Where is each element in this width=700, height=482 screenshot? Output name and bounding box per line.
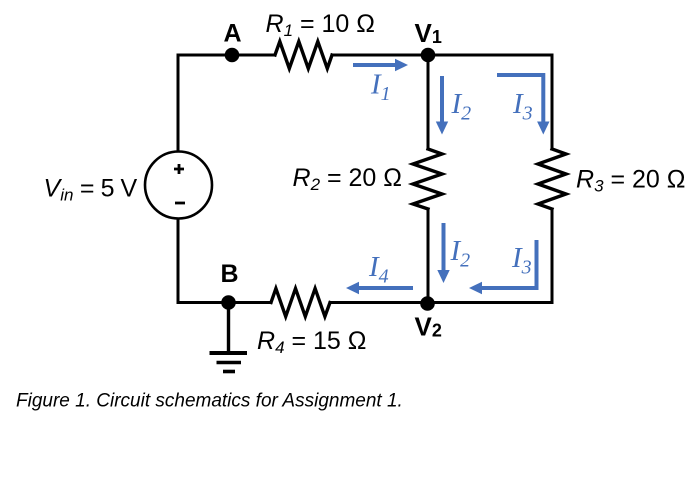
- current arrow I2 bottom: [437, 223, 449, 283]
- current arrow I2 top: [436, 76, 448, 135]
- wire left branch lower: [177, 219, 180, 303]
- svg-text:V1: V1: [415, 18, 442, 48]
- wire bottom right segment: [330, 301, 552, 304]
- svg-text:I2: I2: [450, 235, 471, 272]
- ground: [210, 303, 248, 372]
- svg-text:Figure 1. Circuit schematics f: Figure 1. Circuit schematics for Assignm…: [16, 391, 403, 412]
- svg-text:R1 = 10 Ω: R1 = 10 Ω: [266, 10, 375, 40]
- current arrow I3 top: [497, 75, 550, 135]
- wire top left segment: [178, 54, 275, 57]
- svg-text:Vin = 5 V: Vin = 5 V: [44, 175, 138, 205]
- node A: [225, 48, 240, 63]
- voltage source Vin: [145, 152, 212, 219]
- svg-text:I3: I3: [512, 88, 533, 125]
- wire top right segment: [332, 54, 552, 57]
- wire middle branch lower: [427, 209, 430, 303]
- wire bottom left segment: [178, 301, 271, 304]
- node V1: [421, 48, 436, 63]
- resistor R1: [275, 42, 332, 69]
- wire left branch upper: [177, 55, 180, 152]
- resistor R4: [271, 289, 330, 317]
- current arrow I4: [346, 282, 413, 294]
- resistor R3: [538, 149, 566, 209]
- svg-text:A: A: [224, 19, 242, 47]
- svg-text:B: B: [221, 260, 239, 288]
- wire middle branch upper: [427, 55, 430, 149]
- svg-text:R4 = 15 Ω: R4 = 15 Ω: [257, 327, 366, 357]
- svg-text:R3 = 20 Ω: R3 = 20 Ω: [576, 166, 685, 196]
- node V2: [420, 296, 435, 311]
- resistor R2: [413, 149, 442, 209]
- wire right branch upper: [551, 55, 554, 149]
- node B: [221, 295, 236, 310]
- current arrow I3 bottom: [469, 240, 537, 294]
- svg-text:I3: I3: [511, 242, 532, 279]
- svg-text:I2: I2: [451, 88, 472, 125]
- wire right branch lower: [551, 209, 554, 303]
- svg-text:I1: I1: [370, 69, 391, 106]
- svg-text:R2 = 20 Ω: R2 = 20 Ω: [293, 164, 402, 194]
- current arrow I1: [353, 59, 408, 71]
- svg-text:I4: I4: [368, 251, 389, 288]
- svg-text:V2: V2: [415, 312, 442, 342]
